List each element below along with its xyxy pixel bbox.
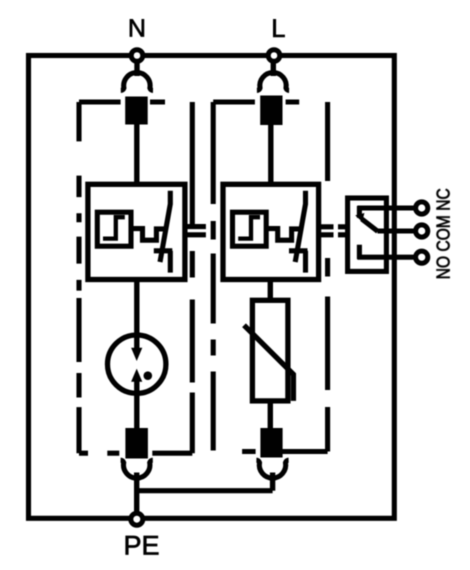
svg-text:PE: PE <box>123 531 159 561</box>
svg-text:NO COM NC: NO COM NC <box>434 188 454 279</box>
svg-text:L: L <box>271 15 285 43</box>
svg-text:N: N <box>128 14 146 42</box>
